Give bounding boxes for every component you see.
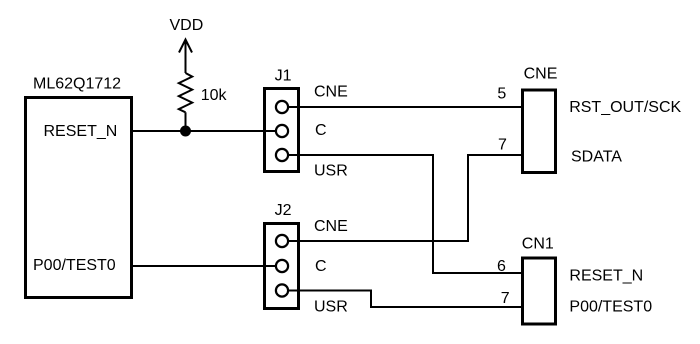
svg-text:USR: USR — [314, 298, 348, 315]
svg-text:10k: 10k — [201, 87, 228, 104]
J2 pin 2 circle C — [276, 260, 288, 272]
wire J2 USR to CN1 pin 7 — [282, 291, 522, 308]
svg-text:J2: J2 — [275, 202, 292, 219]
svg-text:CNE: CNE — [314, 218, 348, 235]
header J2 box — [265, 224, 299, 309]
svg-text:6: 6 — [497, 258, 506, 275]
wire P00/TEST0 net — [131, 265, 282, 267]
wire RESET_N net — [131, 130, 282, 132]
J2 pin 1 circle CNE — [276, 235, 288, 247]
J1 pin 1 circle CNE — [276, 101, 288, 113]
svg-text:VDD: VDD — [170, 17, 204, 34]
J2 pin 3 circle USR — [276, 284, 288, 296]
svg-text:C: C — [315, 258, 327, 275]
svg-text:5: 5 — [497, 85, 506, 102]
junction dot — [180, 126, 191, 137]
svg-text:RESET_N: RESET_N — [569, 267, 643, 284]
svg-text:SDATA: SDATA — [571, 149, 622, 166]
header J1 box — [265, 89, 299, 172]
svg-text:P00/TEST0: P00/TEST0 — [33, 257, 116, 274]
J1 pin 3 circle USR — [276, 149, 288, 161]
resistor R1 — [179, 73, 192, 131]
svg-text:RST_OUT/SCK: RST_OUT/SCK — [569, 99, 681, 116]
svg-text:RESET_N: RESET_N — [44, 123, 118, 140]
wire J1 CNE to CNE pin 5 — [282, 106, 522, 108]
svg-text:ML62Q1712: ML62Q1712 — [33, 76, 121, 93]
svg-text:USR: USR — [314, 163, 348, 180]
J1 pin 2 circle C — [276, 125, 288, 137]
connector CN1 box — [523, 258, 556, 324]
IC U1 box — [26, 98, 132, 298]
svg-text:J1: J1 — [275, 68, 292, 85]
connector CNE box — [523, 90, 556, 173]
svg-text:CNE: CNE — [524, 66, 558, 83]
svg-text:CN1: CN1 — [522, 235, 554, 252]
svg-text:7: 7 — [498, 136, 507, 153]
wire J1 USR to CN1 pin 6 — [282, 155, 522, 273]
wire J2 CNE to CNE pin 7 — [282, 155, 522, 241]
svg-text:CNE: CNE — [314, 83, 348, 100]
power symbol VDD arrow — [179, 40, 192, 74]
svg-text:7: 7 — [501, 290, 510, 307]
svg-text:P00/TEST0: P00/TEST0 — [569, 299, 652, 316]
svg-text:C: C — [315, 122, 327, 139]
